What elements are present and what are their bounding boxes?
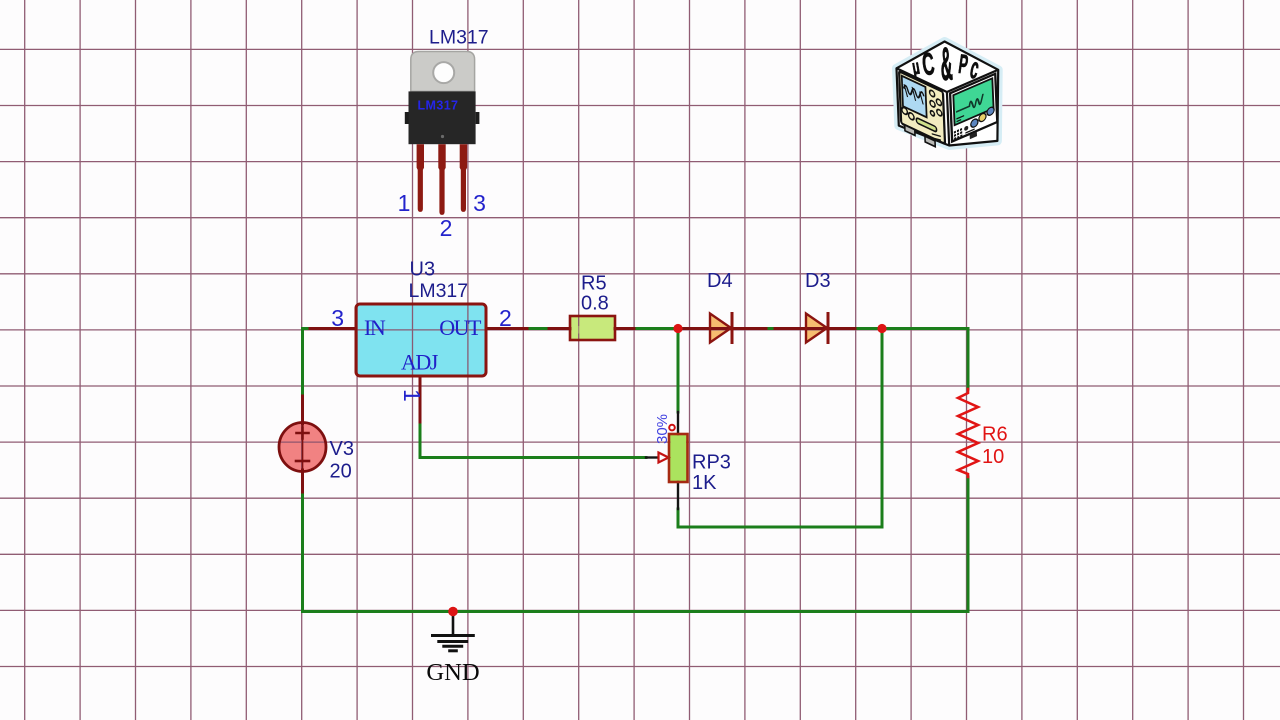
wire right column green (967, 329, 970, 612)
junction node at D4 anode (673, 324, 682, 333)
diode D3 outline (806, 314, 827, 343)
source V3 border (279, 423, 326, 472)
ground symbol (433, 616, 474, 651)
svg-text:LM317: LM317 (418, 99, 459, 113)
package body left notch (405, 112, 409, 124)
svg-text:2: 2 (440, 215, 453, 241)
pin stub ADJ (419, 376, 422, 422)
resistor R5 border (570, 316, 615, 340)
schematic component fills (under grid) (279, 304, 827, 482)
svg-text:1K: 1K (692, 472, 717, 494)
svg-text:30%: 30% (654, 414, 671, 444)
pin RP3 bottom black (677, 482, 679, 509)
pin stub R5 right (615, 327, 634, 330)
potentiometer RP3 body fill (669, 434, 688, 482)
wire ADJ to wiper green (420, 420, 646, 458)
package leg 2 (438, 144, 445, 215)
wires and outlines (279, 304, 978, 651)
diode D4 outline (710, 314, 731, 343)
package tab hole (433, 62, 454, 83)
svg-text:ADJ: ADJ (401, 350, 439, 375)
package metal tab (411, 52, 475, 92)
logo cube outline (897, 42, 999, 146)
svg-text:2: 2 (499, 305, 512, 331)
potentiometer RP3 fill patch over grid (671, 439, 687, 446)
wire RP3 top green (677, 329, 680, 413)
diode D4 body fill (710, 314, 731, 343)
source V3 minus sign (296, 460, 309, 463)
svg-text:D3: D3 (805, 270, 831, 292)
logo top face text (910, 38, 982, 91)
potentiometer marker circle (669, 425, 675, 431)
resistor R5 body fill (570, 316, 615, 340)
svg-text:10: 10 (982, 446, 1004, 468)
logo left face oscilloscope (899, 71, 945, 151)
schematic text (330, 259, 1008, 687)
junction node at ground (448, 607, 458, 617)
svg-text:U3: U3 (410, 259, 436, 281)
svg-text:20: 20 (330, 461, 352, 483)
grid line segment inside R5 (578, 326, 580, 334)
package body (409, 91, 476, 144)
wire diodes dark red (684, 327, 855, 330)
resistor R6 zigzag (958, 389, 978, 477)
svg-text:3: 3 (473, 190, 486, 216)
package body pin1 dot (441, 135, 444, 138)
wire left column green (301, 329, 304, 612)
logo halo (897, 42, 999, 146)
pin stub U3 pin2 (486, 327, 570, 330)
package body right notch (476, 112, 480, 124)
svg-text:LM317: LM317 (409, 280, 469, 302)
wire bottom rail green (303, 610, 969, 613)
svg-text:OUT: OUT (439, 315, 482, 340)
logo cube (897, 38, 999, 151)
diode D3 body fill (806, 314, 827, 343)
regulator U3 body fill (356, 304, 486, 376)
svg-text:1: 1 (398, 190, 411, 216)
package leg 3 (460, 144, 467, 212)
svg-text:0.8: 0.8 (581, 293, 609, 315)
svg-text:3: 3 (331, 305, 344, 331)
svg-text:IN: IN (364, 315, 386, 340)
svg-text:RP3: RP3 (692, 452, 731, 474)
svg-text:GND: GND (426, 659, 479, 686)
svg-text:LM317: LM317 (429, 27, 489, 49)
pin stub V3 wire through body (302, 424, 304, 470)
potentiometer wiper arrow (659, 453, 669, 463)
TO-220 package picture (398, 27, 489, 242)
svg-text:R6: R6 (982, 424, 1008, 446)
svg-text:V3: V3 (330, 438, 354, 460)
wire RP3 bottom loop green (678, 329, 882, 528)
regulator U3 border (356, 304, 486, 376)
wire top rail green (303, 327, 969, 330)
svg-text:R5: R5 (581, 273, 607, 295)
source V3 plus sign (297, 428, 309, 439)
logo right face monitor (950, 74, 997, 147)
logo cube inner edges (897, 68, 999, 145)
pin stub U3 pin3 (310, 327, 356, 330)
potentiometer RP3 border (669, 434, 688, 482)
pin RP3 top black (677, 412, 679, 434)
diode D4 cathode bar (731, 314, 734, 343)
junction node at D3 cathode (877, 324, 886, 333)
resistor R5 fill patch over grid (572, 326, 614, 334)
diode D3 cathode bar (827, 314, 830, 343)
source V3 body fill (279, 423, 326, 472)
pin stub V3 wire (301, 396, 304, 492)
svg-text:1: 1 (399, 389, 425, 402)
package leg 1 (417, 144, 424, 212)
pin RP3 wiper black (646, 456, 658, 458)
svg-text:D4: D4 (707, 270, 733, 292)
